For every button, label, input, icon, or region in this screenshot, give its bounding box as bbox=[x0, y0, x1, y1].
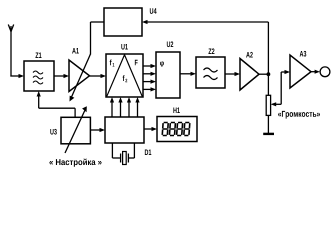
bus D1 to U1 line 4 bbox=[137, 102, 139, 118]
U3 variable diagonal arrow bbox=[65, 111, 85, 154]
amplifier A2 bbox=[240, 59, 259, 91]
arrow into U1 bbox=[101, 74, 107, 78]
amplifier A1 bbox=[69, 60, 90, 92]
junction dot bbox=[267, 72, 271, 76]
wire U3 to Z1 bbox=[39, 95, 75, 117]
arrow into A3 bbox=[285, 70, 291, 74]
bus D1 to U1 line 1 bbox=[111, 102, 113, 118]
filter Z2 bbox=[196, 57, 225, 88]
label A1 bbox=[72, 48, 79, 54]
wire U2 to Z2 bbox=[180, 73, 191, 75]
arrow into A2 bbox=[235, 72, 241, 76]
label A3 bbox=[300, 51, 307, 57]
wire D1 to H1 bbox=[144, 128, 153, 130]
wire A3 to output bbox=[311, 71, 315, 73]
U1 F label bbox=[135, 60, 138, 66]
arrow into Z1 bbox=[19, 74, 25, 78]
label U4 bbox=[150, 8, 157, 14]
antenna bbox=[8, 25, 13, 77]
U2 phi symbol bbox=[160, 61, 164, 67]
Z1 wavy symbol bbox=[33, 71, 43, 84]
crystal D1 quartz bbox=[121, 152, 129, 165]
display H1 bbox=[157, 117, 197, 142]
bus D1 to U1 line 3 bbox=[128, 102, 130, 118]
tuning unit U3 bbox=[61, 117, 90, 144]
feedback wire up to U4 bbox=[147, 22, 268, 74]
A1 gain-control diagonal arrow bbox=[72, 54, 91, 97]
crystal wires bbox=[112, 143, 134, 158]
potentiometer wiper arrow bbox=[271, 102, 277, 106]
bus U1 to U2 line 4 bbox=[143, 88, 152, 90]
label Z1 bbox=[35, 53, 41, 59]
amplifier A3 bbox=[290, 55, 311, 88]
label Громкость bbox=[278, 111, 320, 119]
wire Z2 to A2 bbox=[225, 73, 235, 75]
demodulator U2 bbox=[156, 52, 180, 98]
output circle (phone) bbox=[320, 67, 330, 77]
wire U3 to D1 bbox=[91, 129, 100, 131]
label Z2 bbox=[208, 48, 214, 54]
arrow into Z2 bbox=[191, 72, 197, 76]
arrow into Z1 bottom bbox=[37, 91, 41, 97]
mixer U1 bbox=[106, 54, 143, 97]
wire U4 to A1 control bbox=[91, 22, 105, 55]
label Настройка bbox=[49, 159, 101, 167]
H1 digits 8888 bbox=[162, 123, 190, 136]
wire Z1 to A1 bbox=[54, 75, 64, 77]
label H1 bbox=[173, 108, 179, 114]
AGC block U4 bbox=[104, 8, 142, 36]
U1 f2 label bbox=[123, 75, 125, 81]
bus U1 to U2 line 3 bbox=[143, 81, 152, 83]
wire pot to ground bbox=[267, 115, 269, 133]
wire antenna to Z1 bbox=[10, 75, 19, 77]
bus U1 to U2 line 1 bbox=[143, 65, 152, 67]
synthesizer D1 bbox=[105, 117, 144, 143]
ground bbox=[263, 133, 274, 135]
U1 inner triangle bbox=[107, 55, 142, 97]
wire A2 to junction bbox=[259, 73, 268, 75]
Z2 wavy symbol bbox=[204, 68, 218, 80]
bus U1 to U2 line 2 bbox=[143, 73, 152, 75]
potentiometer (volume) bbox=[266, 95, 270, 115]
label U2 bbox=[167, 41, 173, 47]
arrow into H1 bbox=[152, 127, 158, 131]
label U3 bbox=[50, 129, 56, 135]
wire A1 to U1 bbox=[90, 75, 102, 77]
arrow into D1 bbox=[100, 128, 106, 132]
arrow into U4 bbox=[142, 20, 148, 24]
wire junction down to potentiometer bbox=[267, 74, 269, 95]
label U1 bbox=[121, 44, 127, 50]
label D1 bbox=[145, 150, 151, 156]
filter Z1 bbox=[24, 61, 54, 91]
label A2 bbox=[246, 52, 253, 58]
arrow into A1 bbox=[64, 74, 70, 78]
wire wiper to A3 bbox=[281, 72, 285, 104]
U1 f1 label bbox=[110, 60, 112, 66]
bus D1 to U1 line 2 bbox=[120, 102, 122, 118]
